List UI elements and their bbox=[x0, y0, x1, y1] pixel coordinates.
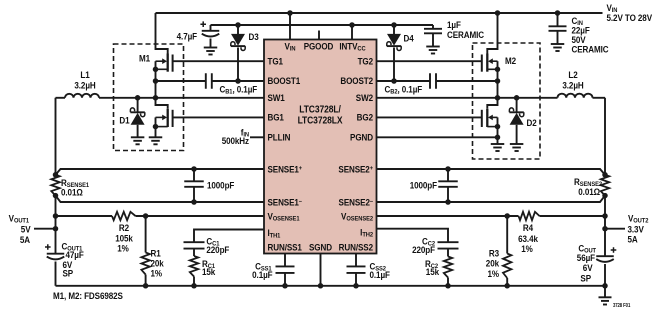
node VOSENSE2 right bbox=[602, 213, 608, 219]
node SW2 bus junction bbox=[495, 95, 501, 101]
node rail junction R3 bbox=[504, 283, 510, 289]
svg-text:6V: 6V bbox=[583, 263, 593, 274]
svg-text:L2: L2 bbox=[568, 70, 577, 81]
wire VOUT2 branch bbox=[604, 98, 606, 256]
svg-text:3.2µH: 3.2µH bbox=[74, 80, 95, 91]
ground bottom right bbox=[599, 286, 612, 305]
node VIN-pin junction bbox=[287, 10, 293, 16]
transistor M2 top N-FET bbox=[482, 13, 498, 98]
node D4-BOOST2 junction bbox=[391, 78, 397, 84]
svg-text:0.1µF: 0.1µF bbox=[252, 270, 273, 281]
svg-text:1000pF: 1000pF bbox=[207, 180, 235, 191]
node INTVCC pin junction bbox=[349, 22, 355, 28]
svg-text:SENSE2+: SENSE2+ bbox=[338, 164, 373, 175]
capacitor 1000pF left bbox=[184, 169, 204, 202]
transistor M2 bottom N-FET bbox=[482, 98, 498, 144]
wire ITH2 bbox=[377, 229, 449, 243]
svg-text:BOOST2: BOOST2 bbox=[340, 76, 373, 87]
svg-text:R2: R2 bbox=[119, 223, 129, 234]
svg-text:3728 F01: 3728 F01 bbox=[613, 302, 631, 307]
diode D2 schottky bbox=[509, 98, 523, 144]
wire INTVCC pin bbox=[351, 25, 353, 40]
svg-text:0.01Ω: 0.01Ω bbox=[61, 187, 83, 198]
node M2 source stub bbox=[495, 67, 501, 73]
wire VIN pin bbox=[289, 13, 291, 40]
svg-text:5A: 5A bbox=[20, 235, 31, 246]
svg-text:LTC3728LX: LTC3728LX bbox=[298, 115, 344, 126]
svg-text:3.3V: 3.3V bbox=[628, 224, 644, 235]
node R3 top bbox=[504, 213, 510, 219]
capacitor CB1 0.1uF bbox=[156, 73, 265, 89]
resistor R1 20k bbox=[141, 216, 149, 286]
svg-text:M1: M1 bbox=[139, 53, 150, 64]
svg-text:SW2: SW2 bbox=[356, 92, 373, 103]
svg-text:4.7µF: 4.7µF bbox=[177, 31, 198, 42]
resistor RC2 15k bbox=[444, 249, 452, 286]
svg-text:CB1, 0.1µF: CB1, 0.1µF bbox=[220, 84, 258, 96]
wire TG2 bbox=[377, 60, 482, 62]
capacitor CC1 220pF bbox=[184, 242, 205, 248]
node CIN junction bbox=[555, 10, 561, 16]
capacitor CIN 22uF bbox=[549, 13, 567, 51]
IC U1 LTC3728L body bbox=[264, 40, 377, 254]
transistor M1 dual-FET dashed outline bbox=[114, 44, 184, 151]
svg-text:1%: 1% bbox=[521, 244, 533, 255]
resistor R3 20k bbox=[503, 216, 511, 286]
svg-text:SENSE1–: SENSE1– bbox=[268, 197, 303, 208]
svg-text:20k: 20k bbox=[486, 258, 499, 269]
svg-text:SENSE1+: SENSE1+ bbox=[268, 164, 303, 175]
node 1000pF top left bbox=[191, 166, 197, 172]
svg-text:SP: SP bbox=[63, 268, 74, 279]
ground D2 bbox=[510, 143, 523, 145]
wire BG1 bbox=[173, 116, 264, 118]
resistor R4 63.4k bbox=[519, 212, 540, 220]
wire SENSE2- bbox=[377, 196, 606, 202]
capacitor CSS1 0.1uF bbox=[276, 254, 295, 286]
svg-text:5V: 5V bbox=[21, 224, 31, 235]
node VOUT2 terminal bbox=[605, 228, 625, 230]
wire VOSENSE1 bbox=[56, 215, 265, 217]
node D3-BOOST1 junction bbox=[235, 78, 241, 84]
svg-text:BOOST1: BOOST1 bbox=[268, 76, 301, 87]
diode D4 schottky bbox=[387, 25, 401, 81]
svg-text:CB2, 0.1µF: CB2, 0.1µF bbox=[384, 84, 422, 96]
wire SENSE2+ bbox=[377, 169, 606, 175]
svg-text:D3: D3 bbox=[248, 31, 258, 42]
capacitor CSS2 0.1uF bbox=[347, 254, 366, 286]
node M2 drain junction bbox=[495, 10, 501, 16]
svg-text:CERAMIC: CERAMIC bbox=[447, 29, 485, 40]
wire SENSE1- bbox=[56, 196, 265, 202]
svg-text:LTC3728L/: LTC3728L/ bbox=[299, 104, 341, 115]
node RSENSE2 top bbox=[602, 172, 608, 178]
svg-text:D4: D4 bbox=[404, 33, 414, 44]
node R1 top bbox=[143, 213, 149, 219]
svg-text:15k: 15k bbox=[426, 266, 439, 277]
wire SGND bbox=[320, 254, 322, 286]
node VOSENSE1 left bbox=[53, 213, 59, 219]
diode D3 schottky bbox=[231, 25, 245, 81]
wire SENSE1+ bbox=[56, 169, 265, 175]
svg-text:PLLIN: PLLIN bbox=[268, 132, 291, 143]
node D2 junction bbox=[514, 95, 520, 101]
node rail junction CSS2 bbox=[353, 283, 359, 289]
net VIN top rail bbox=[156, 12, 603, 14]
node rail junction right end bbox=[602, 283, 608, 289]
node CB2-SW junction bbox=[495, 78, 501, 84]
node RSENSE1 bottom bbox=[53, 193, 59, 199]
svg-text:5.2V TO 28V: 5.2V TO 28V bbox=[607, 13, 653, 24]
transistor M1 top N-FET bbox=[156, 13, 173, 98]
wire ITH1 bbox=[194, 230, 264, 243]
svg-text:RUN/SS1: RUN/SS1 bbox=[268, 242, 303, 253]
svg-text:D1: D1 bbox=[119, 115, 129, 126]
svg-text:D2: D2 bbox=[526, 117, 536, 128]
svg-text:3.2µH: 3.2µH bbox=[562, 80, 583, 91]
svg-text:M1, M2: FDS6982S: M1, M2: FDS6982S bbox=[53, 291, 123, 302]
node M1 bottom source junction bbox=[153, 124, 159, 130]
svg-text:63.4k: 63.4k bbox=[518, 233, 538, 244]
svg-text:5A: 5A bbox=[628, 234, 639, 245]
node 1000pF bottom right bbox=[445, 199, 451, 205]
resistor RSENSE1 0.01ohm bbox=[51, 175, 59, 196]
node D3 top junction bbox=[235, 22, 241, 28]
svg-text:SP: SP bbox=[580, 273, 591, 284]
net ground bottom rail bbox=[56, 285, 606, 287]
node D4 top junction bbox=[391, 22, 397, 28]
svg-text:220pF: 220pF bbox=[206, 245, 230, 256]
svg-text:500kHz: 500kHz bbox=[222, 136, 250, 147]
ground D1 bbox=[131, 136, 145, 138]
wire PLLIN stub fIN bbox=[250, 136, 264, 138]
resistor RSENSE2 0.01ohm bbox=[601, 175, 609, 196]
resistor RC1 15k bbox=[190, 249, 198, 286]
wire TG1 bbox=[173, 60, 264, 62]
transistor M2 dual-FET dashed outline bbox=[473, 43, 541, 159]
svg-text:1%: 1% bbox=[117, 243, 129, 254]
capacitor COUT 56uF bbox=[596, 247, 616, 286]
resistor R2 105k bbox=[112, 212, 136, 220]
node D1 junction bbox=[135, 95, 141, 101]
node rail junction R1 bbox=[143, 283, 149, 289]
svg-text:47µF: 47µF bbox=[66, 249, 85, 260]
svg-text:TG1: TG1 bbox=[268, 56, 284, 67]
svg-text:BG1: BG1 bbox=[268, 112, 284, 123]
svg-text:1000pF: 1000pF bbox=[410, 180, 438, 191]
svg-text:M2: M2 bbox=[505, 55, 516, 66]
diode D1 schottky bbox=[130, 98, 144, 138]
inductor L2 3.2uH bbox=[377, 94, 606, 98]
node VOUT2 tap bbox=[602, 226, 608, 232]
node VOUT1 tap bbox=[53, 226, 59, 232]
node rail junction RC1 bbox=[191, 283, 197, 289]
node RSENSE2 bottom bbox=[602, 193, 608, 199]
svg-text:RUN/SS2: RUN/SS2 bbox=[339, 242, 374, 253]
svg-text:0.1µF: 0.1µF bbox=[370, 270, 391, 281]
node rail junction SGND bbox=[318, 283, 324, 289]
svg-text:15k: 15k bbox=[202, 266, 215, 277]
svg-text:L1: L1 bbox=[80, 70, 89, 81]
node CB1-SW junction bbox=[153, 78, 159, 84]
svg-text:SENSE2–: SENSE2– bbox=[339, 197, 374, 208]
transistor M1 bottom N-FET bbox=[156, 98, 173, 138]
svg-text:0.01Ω: 0.01Ω bbox=[578, 186, 600, 197]
node M1 source stub bbox=[153, 67, 159, 73]
node M2 bottom source junction bbox=[495, 124, 501, 130]
node 1000pF bottom left bbox=[191, 199, 197, 205]
svg-text:R4: R4 bbox=[523, 223, 533, 234]
svg-text:TG2: TG2 bbox=[358, 56, 374, 67]
ground M2 source bbox=[491, 143, 505, 145]
capacitor CB2 0.1uF bbox=[377, 73, 498, 89]
node PGND junction bbox=[495, 135, 501, 141]
capacitor 4.7uF tantalum bbox=[200, 21, 219, 54]
inductor L1 3.2uH bbox=[56, 94, 265, 98]
node 1000pF top right bbox=[445, 166, 451, 172]
capacitor 1000pF right bbox=[438, 169, 458, 202]
node rail junction CSS1 bbox=[282, 283, 288, 289]
wire VOSENSE2 bbox=[377, 215, 606, 217]
ground M1 source bbox=[149, 136, 163, 138]
wire PGND bbox=[377, 136, 498, 138]
svg-text:1%: 1% bbox=[151, 268, 163, 279]
capacitor COUT1 47uF bbox=[45, 244, 64, 286]
svg-text:PGOOD: PGOOD bbox=[304, 41, 334, 52]
svg-text:220pF: 220pF bbox=[412, 245, 436, 256]
node RSENSE1 top bbox=[53, 172, 59, 178]
svg-text:SGND: SGND bbox=[309, 242, 332, 253]
capacitor CC2 220pF bbox=[438, 242, 459, 248]
wire BG2 bbox=[377, 116, 482, 118]
node VOUT1 terminal bbox=[34, 228, 56, 230]
svg-text:SW1: SW1 bbox=[268, 92, 285, 103]
wire PGOOD stub bbox=[318, 31, 320, 40]
capacitor 1uF ceramic bbox=[424, 25, 442, 54]
svg-text:1%: 1% bbox=[488, 268, 500, 279]
node SW1 bus junction bbox=[153, 95, 159, 101]
node rail junction RC2 bbox=[445, 283, 451, 289]
svg-text:PGND: PGND bbox=[350, 132, 373, 143]
wire VOUT1 branch bbox=[55, 98, 57, 254]
svg-text:CERAMIC: CERAMIC bbox=[571, 44, 609, 55]
svg-text:BG2: BG2 bbox=[357, 112, 373, 123]
net INTVCC rail bbox=[211, 24, 434, 26]
